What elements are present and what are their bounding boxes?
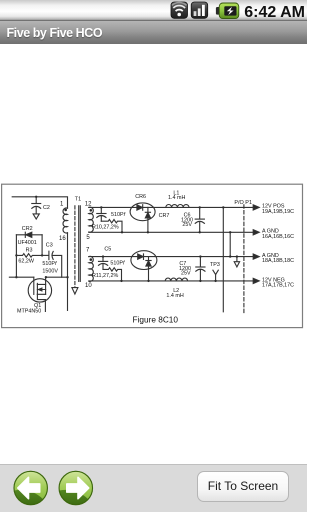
dual diode package lower oval	[131, 251, 157, 270]
svg-text:R11,27,2%: R11,27,2%	[92, 273, 118, 279]
resistor R10	[101, 220, 123, 234]
dual diode package CR6/CR7 oval	[130, 203, 155, 221]
jumper A GND rails	[229, 231, 231, 258]
svg-text:T1: T1	[75, 197, 81, 203]
snubber cap 510pF upper	[97, 206, 106, 221]
diode CR2 top branch	[16, 232, 42, 237]
svg-text:Figure 8C10: Figure 8C10	[133, 315, 179, 324]
svg-text:CR2: CR2	[22, 226, 33, 232]
svg-text:25V: 25V	[182, 222, 192, 228]
svg-text:19A,19B,19C: 19A,19B,19C	[262, 209, 294, 215]
svg-text:1.4 mH: 1.4 mH	[168, 195, 185, 201]
arrow A GND 18	[253, 254, 259, 259]
wire: T1 pin16 / drain bus down	[67, 233, 69, 311]
arrow 12V NEG	[253, 278, 259, 283]
svg-text:7: 7	[86, 248, 90, 254]
transformer T1 primary winding	[63, 208, 67, 233]
wire: 12V NEG rail (pin10 to P1)	[89, 280, 254, 282]
figure border frame	[2, 184, 303, 327]
svg-text:510Pf: 510Pf	[111, 212, 126, 218]
inductor L2	[165, 278, 187, 281]
svg-text:TP3: TP3	[210, 262, 220, 268]
svg-text:62,2W: 62,2W	[18, 258, 34, 264]
toolbar forward button	[59, 471, 94, 506]
vertical bus from 12V POS rail	[222, 206, 224, 312]
svg-text:16: 16	[59, 236, 66, 242]
capacitor C3	[42, 251, 62, 277]
Fit To Screen button	[197, 471, 289, 502]
wire: drain rail	[45, 276, 68, 278]
svg-text:17A,17B,17C: 17A,17B,17C	[262, 283, 294, 289]
svg-text:16A,16B,16C: 16A,16B,16C	[262, 234, 294, 240]
resistor R3 bottom branch	[16, 254, 43, 258]
transformer T1 secondary winding lower (pins 7/10)	[89, 256, 93, 281]
svg-text:C5: C5	[104, 247, 111, 253]
status bar	[0, 0, 307, 21]
toolbar	[0, 464, 307, 512]
test point TP3	[213, 270, 218, 282]
wire: 12V POS rail (pin12 to P1)	[89, 206, 254, 208]
svg-text:25V: 25V	[181, 271, 191, 277]
arrow A GND 16	[253, 230, 259, 235]
toolbar back button	[13, 471, 48, 506]
svg-text:C2: C2	[43, 205, 50, 211]
diode CR7	[145, 207, 150, 233]
snubber CR2/R3 loop left vertical	[15, 235, 17, 279]
svg-text:MTP4N50: MTP4N50	[17, 308, 41, 314]
wire: lower left rail to gate	[9, 276, 33, 278]
svg-text:12: 12	[85, 201, 92, 207]
transistor Q1 MTP4N50	[28, 277, 51, 311]
connector P1 dashed line	[243, 205, 245, 314]
svg-text:1: 1	[60, 201, 64, 207]
svg-text:UF4001: UF4001	[18, 240, 37, 246]
battery status icon	[216, 3, 239, 19]
svg-text:1.4 mH: 1.4 mH	[166, 293, 183, 299]
transformer T1 secondary winding upper (pins 12/5)	[89, 207, 93, 232]
svg-text:CR6: CR6	[135, 194, 146, 200]
capacitor C2	[32, 196, 41, 219]
wire: A GND 18 rail (pin7 to P1)	[89, 256, 254, 258]
loop right vertical	[41, 235, 43, 256]
svg-text:R10,27,2%: R10,27,2%	[92, 225, 119, 231]
svg-text:18A,18B,18C: 18A,18B,18C	[262, 258, 294, 264]
capacitor C6	[195, 206, 204, 233]
svg-text:1500V: 1500V	[42, 268, 58, 274]
inductor L1	[166, 205, 189, 208]
svg-text:P/O P1: P/O P1	[234, 200, 252, 206]
svg-text:CR7: CR7	[159, 213, 170, 219]
svg-text:10: 10	[85, 283, 92, 289]
transformer T1 core	[72, 206, 80, 294]
wire: AC input top wire to T1 pin 1	[12, 197, 67, 208]
diode lower horizontal	[138, 254, 144, 260]
title bar	[0, 21, 307, 44]
svg-text:C3: C3	[46, 243, 53, 249]
wifi status icon	[171, 2, 188, 18]
snubber cap 510pF lower (C5)	[99, 255, 108, 269]
diode CR6	[137, 205, 143, 211]
capacitor C7	[196, 255, 205, 282]
diode lower vertical	[146, 257, 151, 282]
ground symbol on A GND 18 rail	[234, 255, 239, 266]
resistor R11	[103, 268, 123, 282]
svg-text:510Pf: 510Pf	[110, 261, 125, 267]
svg-text:510Pf: 510Pf	[42, 261, 57, 267]
svg-text:R3: R3	[26, 247, 33, 253]
arrow 12V POS	[253, 205, 259, 210]
svg-text:5: 5	[86, 235, 90, 241]
wire: A GND 16 rail (pin5 to P1)	[89, 231, 254, 233]
signal bars status icon	[191, 2, 208, 18]
